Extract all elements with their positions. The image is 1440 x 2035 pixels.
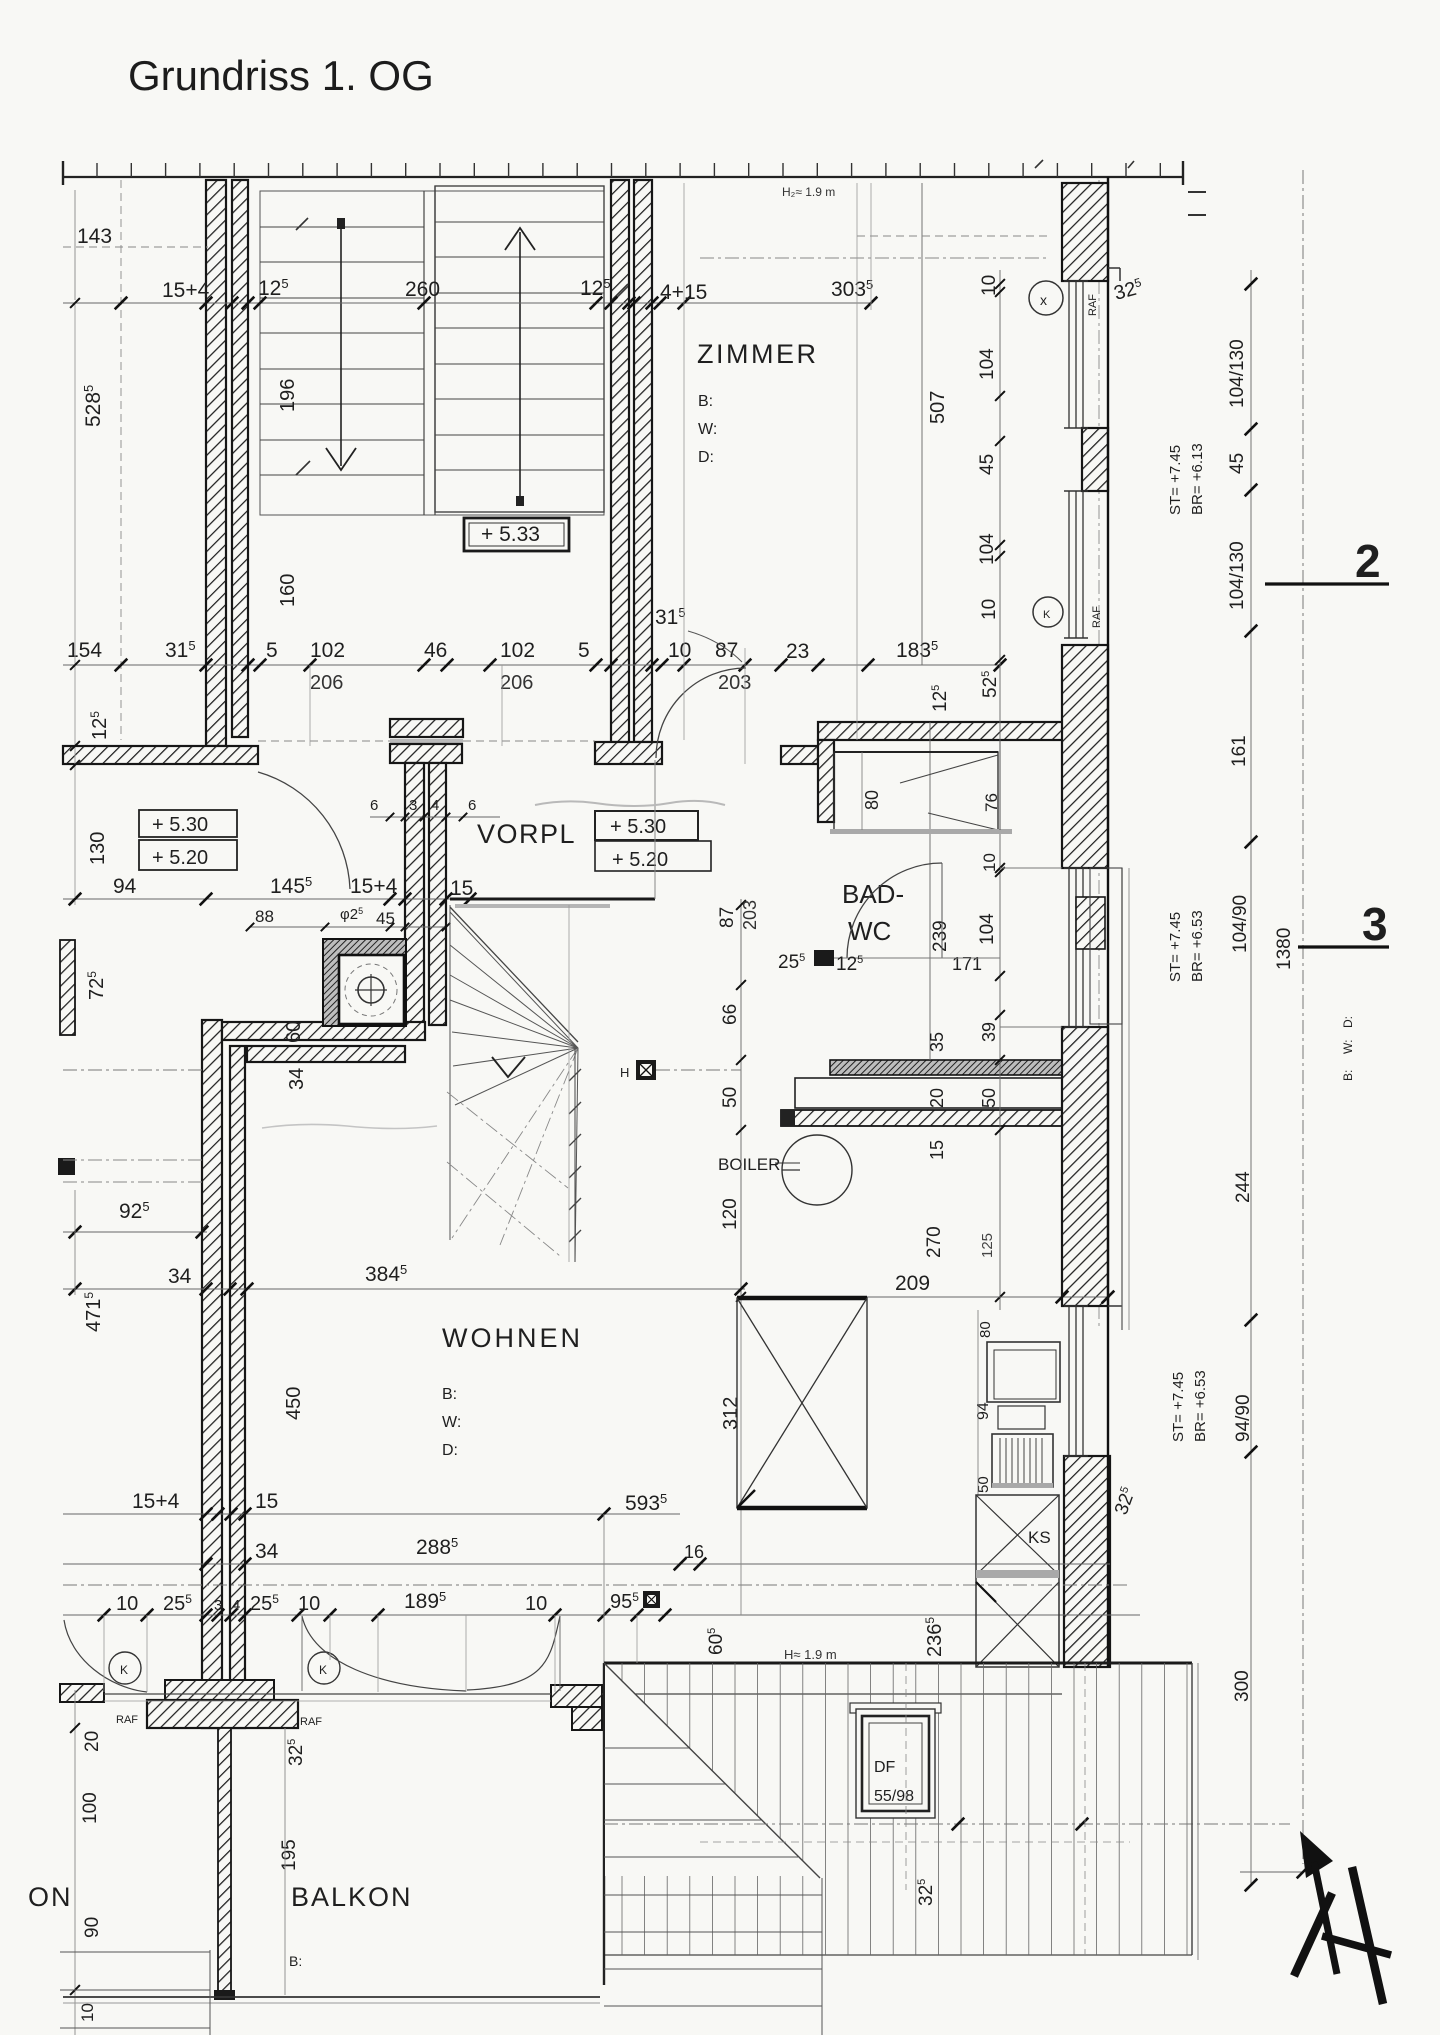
svg-text:+ 5.33: + 5.33: [481, 523, 540, 546]
svg-text:45: 45: [376, 909, 395, 928]
svg-text:46: 46: [424, 639, 447, 662]
svg-text:104/90: 104/90: [1230, 895, 1251, 953]
svg-text:130: 130: [87, 832, 109, 865]
svg-text:RAF: RAF: [1087, 294, 1099, 316]
svg-text:50: 50: [975, 1476, 992, 1493]
svg-text:H≈ 1.9 m: H≈ 1.9 m: [784, 1647, 837, 1662]
svg-text:206: 206: [310, 672, 343, 694]
svg-text:50: 50: [979, 1088, 999, 1108]
svg-text:BALKON: BALKON: [291, 1882, 413, 1912]
svg-text:94/90: 94/90: [1233, 1394, 1254, 1442]
svg-text:87: 87: [717, 907, 738, 928]
svg-text:507: 507: [927, 391, 949, 424]
svg-text:209: 209: [895, 1272, 930, 1295]
svg-text:104: 104: [977, 348, 998, 380]
svg-text:244: 244: [1233, 1171, 1254, 1203]
svg-text:34: 34: [255, 1540, 279, 1563]
svg-text:10: 10: [980, 853, 999, 872]
svg-text:+ 5.20: + 5.20: [612, 849, 668, 871]
svg-text:39: 39: [979, 1022, 999, 1042]
svg-text:6: 6: [468, 797, 476, 814]
svg-text:35: 35: [927, 1032, 947, 1052]
svg-text:VORPL: VORPL: [477, 819, 576, 849]
svg-text:1380: 1380: [1274, 928, 1295, 970]
svg-text:10: 10: [298, 1593, 320, 1615]
svg-text:BR= +6.13: BR= +6.13: [1189, 443, 1206, 515]
svg-text:D:: D:: [1341, 1016, 1355, 1028]
svg-text:ST= +7.45: ST= +7.45: [1170, 1372, 1187, 1442]
svg-text:23: 23: [786, 640, 809, 663]
svg-text:K: K: [120, 1663, 128, 1677]
svg-text:D:: D:: [698, 449, 714, 466]
svg-text:+ 5.30: + 5.30: [152, 814, 208, 836]
svg-text:20: 20: [927, 1088, 947, 1108]
svg-text:203: 203: [718, 672, 751, 694]
svg-text:125: 125: [979, 1233, 996, 1258]
svg-text:KS: KS: [1028, 1528, 1051, 1547]
svg-text:RAF: RAF: [116, 1714, 138, 1726]
svg-text:10: 10: [668, 639, 691, 662]
svg-text:B:: B:: [442, 1386, 457, 1403]
svg-text:RAF: RAF: [300, 1716, 322, 1728]
svg-text:94: 94: [113, 875, 137, 898]
svg-text:W:: W:: [1341, 1040, 1355, 1054]
svg-text:45: 45: [1227, 453, 1248, 474]
svg-text:H₂≈ 1.9 m: H₂≈ 1.9 m: [782, 185, 835, 199]
svg-text:34: 34: [168, 1265, 192, 1288]
svg-text:+ 5.30: + 5.30: [610, 816, 666, 838]
svg-text:10: 10: [78, 2003, 97, 2022]
svg-text:45: 45: [977, 454, 998, 475]
svg-text:3: 3: [409, 797, 417, 814]
svg-text:196: 196: [277, 379, 299, 412]
svg-text:BOILER: BOILER: [718, 1155, 780, 1174]
svg-text:80: 80: [977, 1321, 994, 1338]
svg-text:239: 239: [930, 920, 951, 952]
svg-text:76: 76: [982, 793, 1001, 812]
svg-text:2: 2: [1355, 535, 1381, 587]
svg-text:206: 206: [500, 672, 533, 694]
svg-text:270: 270: [924, 1226, 945, 1258]
svg-text:B:: B:: [1341, 1070, 1355, 1081]
svg-text:100: 100: [80, 1792, 101, 1824]
svg-text:5: 5: [266, 639, 278, 662]
svg-text:80: 80: [862, 790, 882, 810]
svg-text:104/130: 104/130: [1227, 541, 1248, 610]
svg-text:16: 16: [684, 1542, 704, 1562]
svg-text:104: 104: [977, 533, 998, 565]
svg-text:10: 10: [979, 599, 1000, 620]
svg-text:20: 20: [82, 1731, 103, 1752]
svg-text:88: 88: [255, 907, 274, 926]
svg-text:60: 60: [283, 1021, 305, 1043]
svg-text:B:: B:: [289, 1953, 302, 1969]
svg-text:102: 102: [310, 639, 345, 662]
svg-text:50: 50: [720, 1087, 741, 1108]
svg-text:3: 3: [214, 1597, 222, 1614]
svg-text:120: 120: [720, 1198, 741, 1230]
svg-text:K: K: [319, 1663, 327, 1677]
svg-text:312: 312: [720, 1397, 742, 1430]
svg-text:+ 5.20: + 5.20: [152, 847, 208, 869]
svg-text:W:: W:: [442, 1414, 461, 1431]
svg-text:DF: DF: [874, 1759, 896, 1776]
svg-text:ZIMMER: ZIMMER: [697, 339, 818, 369]
svg-text:10: 10: [525, 1593, 547, 1615]
svg-text:H: H: [620, 1065, 629, 1080]
svg-text:RAF: RAF: [1091, 606, 1103, 628]
svg-text:Grundriss 1. OG: Grundriss 1. OG: [128, 52, 434, 99]
svg-text:171: 171: [952, 954, 982, 974]
svg-text:15: 15: [255, 1490, 278, 1513]
svg-text:3: 3: [1362, 898, 1388, 950]
svg-text:ON: ON: [28, 1882, 73, 1912]
svg-text:B:: B:: [698, 393, 713, 410]
svg-text:4: 4: [431, 797, 439, 814]
svg-text:161: 161: [1229, 735, 1250, 767]
svg-text:160: 160: [277, 574, 299, 607]
svg-text:300: 300: [1232, 1670, 1253, 1702]
svg-text:15+4: 15+4: [350, 875, 398, 898]
svg-text:W:: W:: [698, 421, 717, 438]
svg-text:104: 104: [977, 913, 998, 945]
svg-text:55/98: 55/98: [874, 1788, 914, 1805]
svg-text:BR= +6.53: BR= +6.53: [1189, 910, 1206, 982]
svg-text:260: 260: [405, 278, 440, 301]
svg-text:10: 10: [116, 1593, 138, 1615]
svg-text:D:: D:: [442, 1442, 458, 1459]
svg-text:15+4: 15+4: [132, 1490, 180, 1513]
svg-text:90: 90: [82, 1917, 103, 1938]
svg-text:203: 203: [740, 900, 760, 930]
svg-text:15+4: 15+4: [162, 279, 210, 302]
svg-text:102: 102: [500, 639, 535, 662]
svg-text:6: 6: [370, 797, 378, 814]
svg-text:104/130: 104/130: [1227, 339, 1248, 408]
svg-text:450: 450: [283, 1387, 305, 1420]
svg-text:5: 5: [578, 639, 590, 662]
svg-text:15: 15: [450, 877, 473, 900]
svg-text:87: 87: [715, 639, 738, 662]
svg-text:66: 66: [720, 1004, 741, 1025]
svg-text:154: 154: [67, 639, 102, 662]
svg-text:143: 143: [77, 225, 112, 248]
svg-text:x: x: [1040, 292, 1047, 308]
svg-text:ST= +7.45: ST= +7.45: [1167, 912, 1184, 982]
svg-text:4: 4: [232, 1597, 240, 1614]
svg-text:94: 94: [975, 1402, 992, 1420]
svg-text:BR= +6.53: BR= +6.53: [1192, 1370, 1209, 1442]
svg-text:ST= +7.45: ST= +7.45: [1167, 445, 1184, 515]
svg-text:34: 34: [286, 1068, 308, 1090]
svg-text:15: 15: [927, 1140, 947, 1160]
svg-text:10: 10: [979, 275, 1000, 296]
svg-text:BAD-: BAD-: [842, 879, 904, 909]
svg-text:K: K: [1043, 609, 1051, 621]
svg-text:195: 195: [279, 1839, 300, 1871]
svg-text:WOHNEN: WOHNEN: [442, 1323, 583, 1353]
